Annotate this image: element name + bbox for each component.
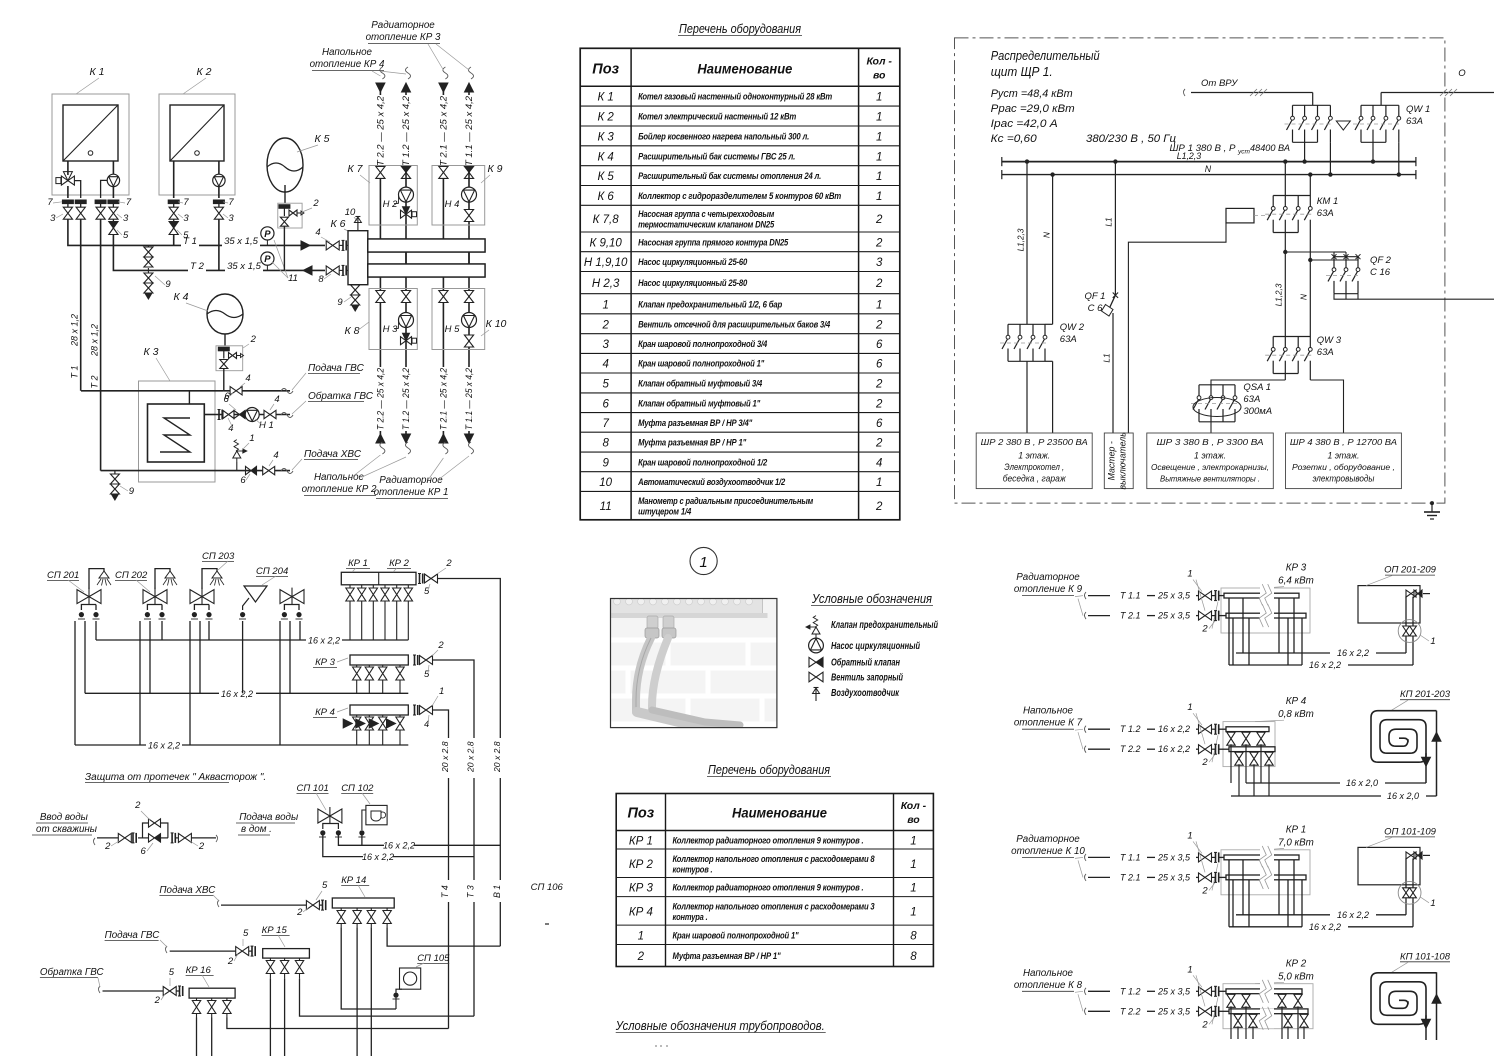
svg-text:отопление К 9: отопление К 9 <box>1014 584 1083 595</box>
pump group K8 box <box>369 289 417 350</box>
svg-text:К 5: К 5 <box>315 133 330 145</box>
svg-text:2: 2 <box>437 640 444 651</box>
pipe KR16 out1 <box>196 1018 198 1057</box>
svg-text:Насос циркуляционный 25-80: Насос циркуляционный 25-80 <box>638 278 748 288</box>
pipe DHW supply line <box>81 390 224 392</box>
valve under KR3 <box>399 665 401 667</box>
svg-text:Ввод воды: Ввод воды <box>40 812 89 823</box>
pipe KR15 out3 <box>300 979 475 1017</box>
svg-text:N: N <box>1300 294 1309 300</box>
valve 9 drain <box>147 270 149 273</box>
svg-text:Котел газовый настенный одноко: Котел газовый настенный одноконтурный 28… <box>638 92 832 102</box>
wire KM1 out N <box>1309 233 1311 337</box>
sanitary point 5 <box>280 590 304 604</box>
svg-text:отопление К 7: отопление К 7 <box>1014 718 1083 729</box>
svg-text:16 х 2,2: 16 х 2,2 <box>308 636 340 646</box>
squig DHW <box>281 389 293 394</box>
triangle marker <box>1336 121 1350 130</box>
svg-text:К 4: К 4 <box>174 291 189 303</box>
svg-text:К 3: К 3 <box>144 346 159 358</box>
svg-text:СП 204: СП 204 <box>256 566 288 577</box>
wire K2-right to T2 <box>218 219 220 270</box>
svg-text:6: 6 <box>876 359 883 371</box>
valve 1 line1 <box>1199 725 1212 734</box>
svg-text:Электрокотел ,: Электрокотел , <box>1004 462 1064 472</box>
svg-text:6: 6 <box>141 846 147 857</box>
pipe KR14 out3 <box>370 927 372 1056</box>
svg-text:6: 6 <box>223 394 229 405</box>
switch QW1 group B <box>1361 104 1399 106</box>
svg-text:Т 2.2: Т 2.2 <box>1120 1006 1141 1016</box>
manifold КР 2 box <box>1223 984 1313 1029</box>
svg-text:выключатель: выключатель <box>1118 432 1128 490</box>
svg-text:Розетки , оборудование ,: Розетки , оборудование , <box>1292 462 1395 472</box>
pipe 16x2,2 upper КР 1 <box>1236 914 1330 916</box>
svg-text:1: 1 <box>699 554 707 571</box>
valve 1 line1 <box>1199 987 1212 996</box>
svg-text:Iрас =42,0 А: Iрас =42,0 А <box>991 118 1058 130</box>
wire bypass <box>147 245 149 247</box>
pipe CWS <box>221 904 306 906</box>
svg-text:Т 4: Т 4 <box>440 885 450 898</box>
svg-text:2: 2 <box>637 951 645 963</box>
svg-text:Т 2.2: Т 2.2 <box>1120 744 1141 754</box>
svg-text:1: 1 <box>876 112 882 124</box>
valve 1 on line1 <box>1199 853 1212 862</box>
panel dashed border <box>955 38 1445 503</box>
detail valves <box>1403 888 1410 898</box>
svg-text:28 х 1,2: 28 х 1,2 <box>90 324 100 357</box>
svg-text:Насос циркуляционный: Насос циркуляционный <box>831 641 920 652</box>
svg-text:25 х 3,5: 25 х 3,5 <box>1157 1006 1191 1016</box>
valve under KR16 <box>211 998 213 1000</box>
wire QW1B N pole <box>1398 142 1400 174</box>
manifold break КР 3 <box>1260 586 1274 606</box>
svg-text:Ррас =29,0 кВт: Ррас =29,0 кВт <box>991 103 1075 115</box>
manifold break КР 2 <box>1260 981 1274 1001</box>
legend check valve symbol <box>809 657 816 667</box>
svg-text:К 1: К 1 <box>90 66 105 78</box>
svg-text:КР 14: КР 14 <box>341 875 366 886</box>
svg-text:отопление К 10: отопление К 10 <box>1011 846 1085 857</box>
valve 1 on line1 <box>1199 591 1212 600</box>
svg-text:Т 2: Т 2 <box>90 375 100 388</box>
svg-text:3: 3 <box>876 257 883 269</box>
svg-text:7: 7 <box>602 418 609 430</box>
svg-text:Напольное: Напольное <box>1023 968 1074 979</box>
flange on return <box>218 410 220 420</box>
pipe riser x=443.4 top <box>442 88 444 239</box>
pipe legs unit 292 <box>279 621 281 745</box>
pump H2 <box>399 187 414 202</box>
pipe riser x=443.4 bottom <box>442 277 444 438</box>
drain 9 at K3 <box>100 470 102 472</box>
svg-text:3: 3 <box>228 213 234 224</box>
valve 1 line2 <box>1199 745 1212 754</box>
breaker QF2 <box>1334 256 1358 258</box>
manifold КР 3 top bar <box>1219 595 1224 597</box>
svg-text:L1,2,3: L1,2,3 <box>1177 151 1202 161</box>
svg-text:КР 4: КР 4 <box>629 906 653 918</box>
valve in K10 <box>439 291 448 303</box>
svg-text:Подача воды: Подача воды <box>239 812 299 823</box>
svg-text:СП 105: СП 105 <box>417 953 450 964</box>
callout circle 1 <box>690 547 717 574</box>
svg-text:25 х 3,5: 25 х 3,5 <box>1157 591 1191 601</box>
svg-text:Поз: Поз <box>628 806 655 822</box>
pipe riser x=406 top <box>405 88 407 264</box>
svg-text:Автоматический воздухоотводчик: Автоматический воздухоотводчик 1/2 <box>637 477 786 487</box>
svg-text:КР 2: КР 2 <box>389 558 410 569</box>
svg-text:штуцером 1/4: штуцером 1/4 <box>638 507 692 517</box>
svg-text:1: 1 <box>910 859 916 871</box>
radiator ОП 201-209 <box>1358 586 1420 623</box>
svg-text:2: 2 <box>104 841 111 852</box>
svg-text:4: 4 <box>228 423 233 434</box>
svg-text:во: во <box>907 814 920 826</box>
svg-text:35 х 1,5: 35 х 1,5 <box>224 236 259 247</box>
svg-text:Т 1.1 — 25 х 4,2: Т 1.1 — 25 х 4,2 <box>464 96 474 166</box>
svg-text:Обратный клапан: Обратный клапан <box>831 658 900 669</box>
svg-text:К 9: К 9 <box>488 163 503 175</box>
pipe 16x2,2 sp lower <box>323 835 363 857</box>
switch QW1 group A <box>1293 104 1331 106</box>
pipe riser x=380.4 top <box>379 88 381 239</box>
sanitary point СП 203 <box>202 569 217 589</box>
wire QW1A N pole <box>1329 142 1331 174</box>
svg-text:L1,2,3: L1,2,3 <box>1275 283 1284 306</box>
wire <box>80 204 82 207</box>
svg-text:Т 3: Т 3 <box>466 885 476 898</box>
svg-text:Н 3: Н 3 <box>383 324 399 335</box>
pipe Т 2.2 line2 <box>1088 1010 1110 1012</box>
svg-text:48400 ВА: 48400 ВА <box>1250 143 1290 153</box>
valve under KR15 <box>284 958 286 960</box>
svg-text:Т 1.1: Т 1.1 <box>1120 591 1141 601</box>
valve in K7 <box>376 166 385 178</box>
svg-text:7: 7 <box>47 197 53 208</box>
svg-text:Руст =48,4 кВт: Руст =48,4 кВт <box>991 88 1073 100</box>
svg-text:Клапан предохранительный: Клапан предохранительный <box>831 620 938 631</box>
junction dot N <box>1050 172 1054 176</box>
radiator valve top <box>1406 590 1416 597</box>
svg-text:2: 2 <box>296 907 303 918</box>
pipe KR16 out2 <box>211 1018 213 1057</box>
svg-text:Поз: Поз <box>592 61 619 77</box>
riser T4 <box>448 745 450 1029</box>
ball valve 3 col2 <box>96 207 105 219</box>
svg-text:К 1: К 1 <box>597 92 613 104</box>
svg-text:1: 1 <box>638 930 644 942</box>
junction dot N <box>1397 172 1401 176</box>
feed drop 1 <box>1312 93 1314 106</box>
valve 9 bypass <box>144 247 153 257</box>
valve 5/2 CWS <box>306 901 319 910</box>
junction dot L123 <box>1025 159 1029 163</box>
pipe 16x2,0 lower <box>1231 795 1381 797</box>
wire L1 master <box>1114 162 1116 295</box>
svg-text:Вентиль отсечной для расширите: Вентиль отсечной для расширительных бако… <box>638 319 831 329</box>
feed wire 2 <box>1381 92 1494 94</box>
svg-text:Н 2,3: Н 2,3 <box>592 278 620 290</box>
svg-text:63А: 63А <box>1317 347 1334 358</box>
svg-text:Т 1: Т 1 <box>183 236 197 247</box>
flow arrows bottom <box>376 434 385 443</box>
svg-text:ШР 2 380 В , Р 23500 ВА: ШР 2 380 В , Р 23500 ВА <box>981 438 1089 447</box>
pipe CW line <box>101 470 178 472</box>
svg-text:5: 5 <box>322 880 328 891</box>
svg-text:Напольное: Напольное <box>1023 706 1074 717</box>
svg-text:7: 7 <box>183 197 189 208</box>
svg-text:Радиаторное: Радиаторное <box>1016 572 1080 583</box>
pipe legs unit 202 <box>189 621 191 745</box>
svg-text:1: 1 <box>439 686 444 697</box>
svg-text:3: 3 <box>123 213 129 224</box>
svg-text:4: 4 <box>274 394 279 405</box>
wire <box>173 204 175 207</box>
wire SP105 drop <box>396 989 402 992</box>
legend air vent symbol <box>815 688 817 697</box>
svg-text:7,0 кВт: 7,0 кВт <box>1278 837 1314 848</box>
pipe riser x=469 bottom <box>468 277 470 438</box>
pipe KR15 out1 <box>269 979 271 1056</box>
ball valve 3 col4 <box>169 207 178 219</box>
pipe 16x2,2 upper КР 3 <box>1236 652 1330 654</box>
table1 equipment list <box>580 48 900 520</box>
wire K1 left pipe <box>67 161 69 175</box>
svg-text:Кран шаровой полнопроходной 1: Кран шаровой полнопроходной 1/2 <box>638 457 768 467</box>
sanitary point СП 202 <box>155 569 170 589</box>
svg-text:1: 1 <box>1430 636 1435 647</box>
svg-text:КР 2: КР 2 <box>629 859 654 871</box>
ground symbol <box>1431 503 1433 512</box>
svg-text:Т 1.2 — 25 х 4,2: Т 1.2 — 25 х 4,2 <box>401 368 411 430</box>
svg-text:16 х 2,0: 16 х 2,0 <box>1346 778 1378 788</box>
wire K1 side branch <box>75 181 81 198</box>
junction dot N <box>1328 172 1332 176</box>
K3 heat exchanger <box>148 404 205 462</box>
valve under H5 <box>464 335 473 347</box>
svg-text:Перечень оборудования: Перечень оборудования <box>679 21 801 36</box>
valve under KR14 <box>370 908 372 910</box>
svg-text:Клапан обратный муфтовый 3/4: Клапан обратный муфтовый 3/4 <box>638 378 763 388</box>
svg-text:16 х 2,2: 16 х 2,2 <box>1337 910 1369 920</box>
pump H5 <box>462 313 477 328</box>
svg-text:В 1: В 1 <box>492 885 502 898</box>
svg-text:63А: 63А <box>1406 116 1423 127</box>
svg-text:Т 2.1: Т 2.1 <box>1120 872 1141 882</box>
svg-text:1: 1 <box>602 299 608 311</box>
riser B1 <box>499 640 501 946</box>
indirect boiler K3 box <box>139 381 216 482</box>
manifold КР 1 top bar <box>1219 856 1224 858</box>
wire QW1A to L123 <box>1304 142 1306 161</box>
radiator ОП 101-109 <box>1358 847 1420 884</box>
junction dot L123 <box>1113 159 1117 163</box>
svg-text:2: 2 <box>875 319 883 331</box>
svg-text:8: 8 <box>910 951 917 963</box>
wire K2-left to T1 <box>173 235 175 246</box>
pipe label top Т 2.2 <box>376 95 385 167</box>
valve2 in K8 <box>401 291 410 303</box>
svg-text:контура .: контура . <box>673 912 708 922</box>
svg-text:Манометр с радиальным присоеди: Манометр с радиальным присоединительным <box>638 496 813 506</box>
manifold KR14 <box>332 898 394 908</box>
manifold break КР 1 <box>1260 847 1274 867</box>
manifold КР 4 box <box>1223 722 1275 767</box>
pipe KR14 out1 <box>341 927 396 1009</box>
svg-text:1: 1 <box>1187 569 1192 580</box>
radiator valve top <box>1406 852 1416 859</box>
valve under KR16 <box>196 998 198 1000</box>
svg-text:5: 5 <box>243 928 249 939</box>
svg-text:К 2: К 2 <box>597 112 614 124</box>
pump H1 <box>245 408 259 422</box>
air vent 10 on K6 <box>357 226 359 231</box>
valve 4 on CW <box>263 466 275 474</box>
svg-text:63А: 63А <box>1243 394 1260 405</box>
svg-text:Воздухоотводчик: Воздухоотводчик <box>831 688 900 699</box>
svg-text:Коллектор радиаторного отоплен: Коллектор радиаторного отопления 9 конту… <box>673 835 864 845</box>
manifold KR4 <box>350 705 408 715</box>
manifold КР 3 box <box>1221 588 1310 633</box>
svg-text:2: 2 <box>1201 1019 1208 1030</box>
svg-text:2: 2 <box>134 800 141 811</box>
manifold КР 2 bottom bar <box>1219 1010 1229 1012</box>
svg-text:2: 2 <box>1201 885 1208 896</box>
svg-text:QW 3: QW 3 <box>1317 335 1342 346</box>
svg-text:1: 1 <box>910 883 916 895</box>
svg-text:Т 1.2: Т 1.2 <box>1120 986 1141 996</box>
svg-text:300мА: 300мА <box>1243 406 1272 417</box>
svg-text:2: 2 <box>601 319 609 331</box>
svg-text:Напольное: Напольное <box>322 47 373 58</box>
pipe 16x2,0 upper <box>1246 782 1340 784</box>
svg-text:Подача ХВС: Подача ХВС <box>304 449 362 460</box>
svg-text:20 х 2.8: 20 х 2.8 <box>440 741 450 773</box>
svg-text:КМ 1: КМ 1 <box>1317 196 1338 207</box>
svg-text:КР 4: КР 4 <box>315 707 335 718</box>
svg-text:9: 9 <box>129 486 135 497</box>
svg-text:Т 2: Т 2 <box>190 261 204 272</box>
valve 1 on line2 <box>1199 611 1212 620</box>
pump H4 <box>462 187 477 202</box>
svg-text:10: 10 <box>345 207 356 218</box>
squig CW <box>281 469 293 474</box>
flange line2 <box>1215 872 1217 882</box>
wire QSA1 to box3 <box>1210 422 1212 433</box>
tiny marks <box>655 1045 657 1047</box>
svg-text:Т 2.2 — 25 х 4,2: Т 2.2 — 25 х 4,2 <box>375 96 385 166</box>
valve 2 at KR2 <box>425 574 438 583</box>
svg-text:25 х 3,5: 25 х 3,5 <box>1157 872 1191 882</box>
bus N <box>1002 174 1416 176</box>
pipe T1 drop 28x1,2 <box>80 219 82 391</box>
wire K5 down <box>284 185 286 203</box>
breaker QF1 <box>1113 293 1118 298</box>
svg-text:КР 4: КР 4 <box>1286 696 1307 707</box>
svg-text:QF 2: QF 2 <box>1370 255 1392 266</box>
check 6 on return <box>234 411 240 419</box>
detail circle <box>1398 881 1421 904</box>
union 7 col2 <box>95 200 106 204</box>
valve under H4 <box>464 210 473 222</box>
pipe 16x2,2 lower КР 1 <box>1229 926 1302 928</box>
svg-text:2: 2 <box>875 214 883 226</box>
svg-text:1: 1 <box>876 477 882 489</box>
svg-text:Н 4: Н 4 <box>445 199 460 210</box>
check in K7 <box>401 166 410 172</box>
svg-text:5: 5 <box>602 378 609 390</box>
svg-text:К 4: К 4 <box>597 151 613 163</box>
pump K1 <box>112 161 114 174</box>
svg-text:К 10: К 10 <box>486 318 507 330</box>
svg-text:Кран шаровой полнопроходной 3: Кран шаровой полнопроходной 3/4 <box>638 339 768 349</box>
pipe legs unit 155 <box>139 621 141 745</box>
gauge P on T2 <box>261 252 274 265</box>
wire into HX <box>188 391 190 404</box>
svg-text:16 х 2,2: 16 х 2,2 <box>1309 922 1341 932</box>
hydro separator K6 <box>348 231 368 285</box>
wire L123 to box1 <box>1026 162 1028 325</box>
RCD QSA1 <box>1199 384 1235 386</box>
svg-text:1 этаж.: 1 этаж. <box>1194 451 1226 461</box>
svg-text:Радиаторное: Радиаторное <box>1016 834 1080 845</box>
valve under KR1/2 <box>396 585 398 588</box>
svg-text:К 7,8: К 7,8 <box>593 214 620 226</box>
pipe KR16 out3 <box>227 1018 449 1029</box>
svg-text:Защита от протечек " Аквастор: Защита от протечек " Аквасторож ". <box>85 772 266 783</box>
valve 5/2 HWS <box>236 947 249 956</box>
check valve 5 on K2 left <box>169 222 178 229</box>
contactor coil KM1 <box>1226 208 1254 223</box>
flange KR2 right <box>419 574 421 584</box>
svg-text:ОП 201-209: ОП 201-209 <box>1384 565 1436 576</box>
svg-text:отопление КР 1: отопление КР 1 <box>374 487 449 498</box>
svg-text:Т 1.1: Т 1.1 <box>1120 852 1141 862</box>
svg-text:КР 3: КР 3 <box>315 657 336 668</box>
svg-text:КП 101-108: КП 101-108 <box>1400 951 1451 962</box>
union 7 col5 <box>213 200 224 204</box>
pipe Т 1.2 line1 <box>1088 728 1110 730</box>
pipe 16x2,2 sp upper <box>338 835 384 845</box>
check 6 on CW <box>246 466 252 474</box>
check valve 5 on K1 right <box>109 222 118 229</box>
svg-text:ОП 101-109: ОП 101-109 <box>1384 826 1436 837</box>
flange KR3 right <box>414 655 416 665</box>
pump group K9 box <box>432 166 485 226</box>
svg-text:P: P <box>264 254 271 265</box>
pipe line 16x2,2 upper <box>96 639 306 641</box>
valve under KR3 <box>382 665 384 667</box>
svg-text:Радиаторное: Радиаторное <box>379 475 443 486</box>
collector bar top <box>368 239 485 252</box>
boiler K1 <box>52 94 129 195</box>
wire to box4 <box>1310 380 1343 433</box>
svg-text:ШР 3 380 В , Р 3300 ВА: ШР 3 380 В , Р 3300 ВА <box>1157 438 1265 447</box>
svg-text:16 х 2,2: 16 х 2,2 <box>1337 648 1369 658</box>
flow valve under KR4 <box>368 715 370 717</box>
svg-text:1: 1 <box>876 299 882 311</box>
shutoff box 2 at K5 <box>278 203 302 228</box>
pipe label bottom Т 2.2 <box>376 367 385 431</box>
svg-text:Т 1.1 — 25 х 4,2: Т 1.1 — 25 х 4,2 <box>464 368 474 430</box>
detail valves <box>1403 626 1410 636</box>
svg-text:Т 1: Т 1 <box>70 365 80 378</box>
svg-text:9: 9 <box>337 297 343 308</box>
manifold KR3 <box>350 655 408 665</box>
svg-text:Н 1: Н 1 <box>259 420 274 431</box>
